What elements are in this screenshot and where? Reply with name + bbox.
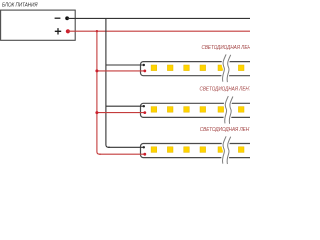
junction dot positive bus strip2 xyxy=(95,111,98,114)
strip3 plus terminal dot xyxy=(143,153,146,156)
strip2 plus terminal dot xyxy=(143,111,146,114)
LED squares strip 3 xyxy=(151,147,244,153)
break symbol strip 3 xyxy=(222,136,230,164)
positive bus vertical xyxy=(97,31,101,154)
wire to strip1 plus xyxy=(97,70,145,72)
wire to strip2 plus xyxy=(97,112,145,114)
wire to strip2 minus xyxy=(106,105,144,107)
break symbol strip 1 xyxy=(222,54,230,82)
wire to strip1 minus xyxy=(106,64,144,66)
positive wire (top) xyxy=(68,30,250,32)
wire to strip3 plus xyxy=(99,153,145,155)
minus terminal xyxy=(55,17,61,19)
LED squares strip 2 xyxy=(151,107,244,113)
LED strip LS2 body xyxy=(141,103,258,117)
break symbol strip 2 xyxy=(225,96,233,124)
power supply box PS1 xyxy=(1,10,76,40)
negative wire (top) xyxy=(67,17,250,19)
svg-text:БЛОК ПИТАНИЯ: БЛОК ПИТАНИЯ xyxy=(2,3,38,9)
strip1 plus terminal dot xyxy=(143,70,146,73)
plus terminal dot xyxy=(66,29,70,33)
LED strip LS3 body xyxy=(141,144,258,158)
svg-text:СВЕТОДИОДНАЯ ЛЕНТА: СВЕТОДИОДНАЯ ЛЕНТА xyxy=(200,127,250,133)
strip1 minus terminal dot xyxy=(143,64,145,66)
LED strip LS1 body xyxy=(141,62,258,76)
LED squares strip 1 xyxy=(151,65,244,71)
strip3 minus terminal dot xyxy=(143,146,145,148)
plus terminal xyxy=(55,28,61,34)
junction dot positive bus strip1 xyxy=(95,69,98,72)
svg-text:СВЕТОДИОДНАЯ ЛЕНТА: СВЕТОДИОДНАЯ ЛЕНТА xyxy=(202,45,251,51)
junction dot positive bus at top wire xyxy=(96,30,98,32)
wire to strip3 minus xyxy=(108,146,144,148)
negative bus vertical xyxy=(106,18,110,147)
minus terminal dot xyxy=(65,16,69,20)
svg-text:СВЕТОДИОДНАЯ ЛЕНТА: СВЕТОДИОДНАЯ ЛЕНТА xyxy=(200,86,251,92)
strip2 minus terminal dot xyxy=(143,105,145,107)
